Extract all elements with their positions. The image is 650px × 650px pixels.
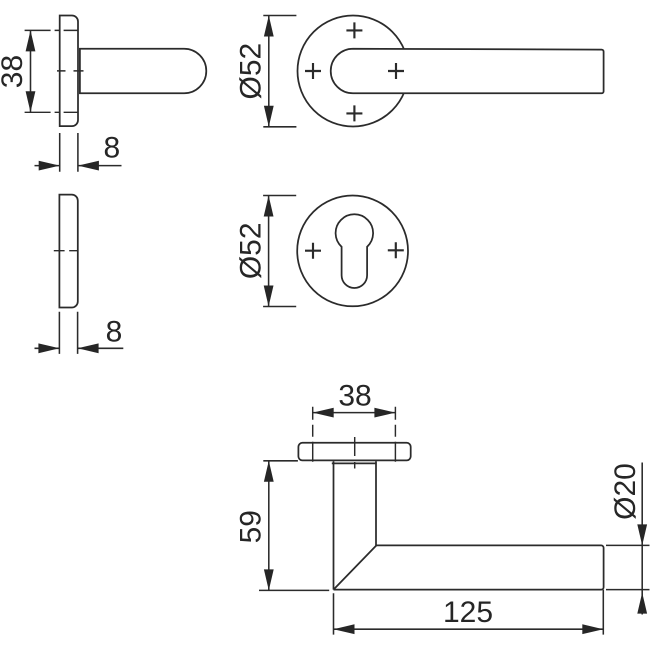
arrow up [264, 461, 274, 482]
arrow down [264, 569, 274, 590]
screw mark right [388, 242, 404, 258]
dim O52 ticks [263, 196, 296, 307]
arrow up [264, 196, 274, 217]
svg-text:Ø20: Ø20 [609, 463, 642, 520]
svg-text:38: 38 [0, 55, 29, 88]
svg-text:125: 125 [443, 596, 493, 629]
arrow down [264, 106, 274, 127]
svg-text:59: 59 [235, 510, 268, 543]
center line middle [57, 70, 84, 72]
lever front view [331, 49, 604, 94]
center line [354, 437, 356, 469]
dim 59 line [268, 461, 270, 591]
svg-text:38: 38 [338, 380, 371, 413]
center line top screw [25, 29, 79, 31]
arrow down [26, 91, 36, 112]
dim 125 line [334, 628, 604, 630]
rose circle [298, 16, 409, 127]
screw center line right [394, 407, 396, 463]
arrow left [334, 624, 355, 634]
arrow down [264, 286, 274, 307]
arrow right [582, 624, 603, 634]
dim 8 ext lines [59, 312, 77, 354]
center line bottom screw [25, 111, 79, 113]
dim O52 line [268, 16, 270, 127]
arrow right [39, 161, 60, 171]
dim 125 ext lines [334, 590, 604, 635]
dim 38 line [30, 30, 32, 112]
arrow down [637, 524, 647, 545]
neck collar seam [332, 462, 377, 464]
screw mark left [305, 63, 321, 79]
arrow right [38, 343, 59, 353]
arrow up [26, 30, 36, 51]
center line [54, 250, 79, 252]
lever grip top view [334, 545, 604, 589]
neck right edge [375, 461, 377, 545]
arrow left [313, 408, 334, 418]
dim 8 line [35, 347, 124, 349]
escutcheon circle [297, 196, 408, 307]
dim O20 ext lines [606, 545, 650, 589]
screw mark left [305, 243, 321, 259]
rosette side profile [60, 16, 78, 127]
dim 8 ext lines [60, 133, 78, 172]
dim 38 line [313, 412, 396, 414]
svg-text:8: 8 [103, 131, 120, 164]
euro profile cylinder hole [336, 214, 374, 288]
arrow left [78, 161, 99, 171]
svg-text:Ø52: Ø52 [234, 222, 267, 279]
arrow left [78, 343, 99, 353]
dim 8 line [35, 165, 122, 167]
svg-text:8: 8 [106, 315, 123, 348]
arrow up [264, 16, 274, 37]
dim O52 ticks [263, 16, 296, 127]
arrow right [374, 408, 395, 418]
neck left edge [333, 461, 335, 589]
lever grip side profile [80, 49, 206, 93]
screw mark bottom [346, 105, 362, 121]
escutcheon side profile [59, 195, 77, 308]
arrow up [637, 593, 647, 614]
screw mark right [388, 63, 404, 79]
dim O52 line [268, 196, 270, 307]
dim 59 ticks [259, 461, 329, 591]
screw mark top [346, 22, 362, 38]
rose edge view [298, 443, 410, 461]
dim O20 line [641, 463, 643, 615]
svg-text:Ø52: Ø52 [234, 43, 267, 100]
miter bend edge [334, 545, 377, 589]
screw center line left [312, 407, 314, 463]
